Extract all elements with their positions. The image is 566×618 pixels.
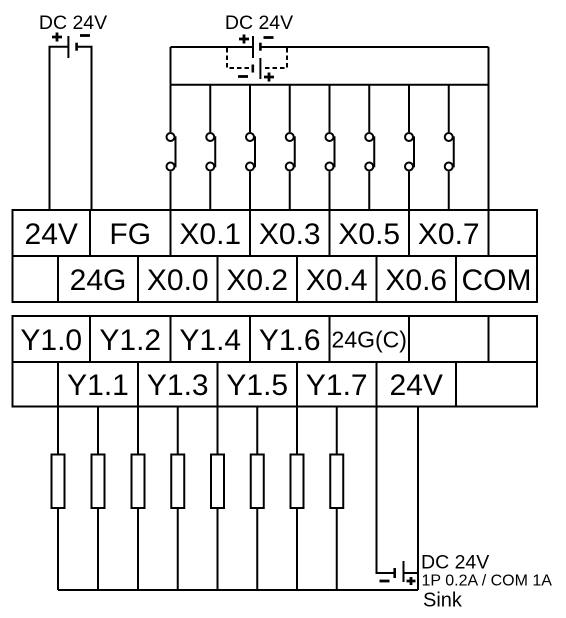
- switch S6 (input X0.5): [365, 85, 374, 210]
- wire B1 - to terminal 24G: [77, 47, 92, 210]
- battery B3 long plate (+): [403, 561, 405, 582]
- wire output Y1.6 to load L7: [296, 407, 298, 455]
- load L7: [291, 455, 304, 509]
- load L1: [52, 455, 65, 509]
- svg-text:Y1.5: Y1.5: [226, 369, 288, 402]
- svg-text:24G: 24G: [70, 264, 127, 297]
- wire output Y1.4 to load L5: [217, 407, 219, 455]
- battery B1 long plate (+): [67, 36, 69, 58]
- terminal Y1.2: [90, 316, 171, 362]
- svg-text:Y1.4: Y1.4: [179, 324, 241, 357]
- terminal X0.6: [377, 256, 457, 302]
- wire left riser: [170, 47, 172, 85]
- switch S4 (input X0.3): [286, 85, 295, 210]
- wire load L8 to common bus: [336, 508, 338, 590]
- wire load L1 to common bus: [57, 508, 59, 590]
- wire output Y1.2 to load L3: [137, 407, 139, 455]
- terminal 24V: [13, 210, 91, 256]
- svg-text:1P 0.2A / COM 1A: 1P 0.2A / COM 1A: [422, 573, 553, 590]
- svg-text:COM: COM: [462, 264, 532, 297]
- terminal Y1.6: [250, 316, 330, 362]
- polarity + (battery B1): [52, 33, 62, 42]
- wire load L7 to common bus: [296, 508, 298, 590]
- terminal X0.7: [409, 210, 489, 256]
- wire battery B3 + to terminal 24V and common bus: [404, 407, 419, 591]
- terminal 24G: [58, 256, 138, 302]
- wire top bus right segment: [260, 46, 488, 48]
- svg-text:Y1.7: Y1.7: [306, 369, 368, 402]
- switch S5 (input X0.4): [326, 85, 335, 210]
- svg-text:X0.5: X0.5: [338, 218, 400, 251]
- switch S1 (input X0.0): [167, 85, 176, 210]
- wire output Y1.3 to load L4: [177, 407, 179, 455]
- wire load L2 to common bus: [97, 508, 99, 590]
- svg-text:Y1.0: Y1.0: [20, 324, 82, 357]
- terminal X0.5: [330, 210, 410, 256]
- svg-text:Y1.2: Y1.2: [99, 324, 161, 357]
- terminal 24V (output row): [377, 362, 457, 407]
- terminal (blank, Y lower row): [13, 362, 59, 407]
- svg-text:Sink: Sink: [423, 590, 463, 612]
- wire dashed alternate left (B2'): [227, 48, 250, 68]
- wire output Y1.5 to load L6: [256, 407, 258, 455]
- svg-text:X0.0: X0.0: [147, 264, 209, 297]
- wire load L6 to common bus: [256, 508, 258, 590]
- terminal (blank, Y upper row): [409, 316, 489, 362]
- load L3: [132, 455, 145, 509]
- wire input bus: [171, 84, 489, 86]
- wire load L5 to common bus: [217, 508, 219, 590]
- terminal (blank, Y lower row): [456, 362, 537, 407]
- svg-text:X0.2: X0.2: [226, 264, 288, 297]
- terminal X0.1: [171, 210, 251, 256]
- svg-text:DC 24V: DC 24V: [39, 12, 107, 34]
- svg-text:X0.3: X0.3: [259, 218, 321, 251]
- wire B1 + to terminal 24V: [50, 47, 69, 210]
- svg-text:DC 24V: DC 24V: [421, 552, 489, 574]
- terminal Y1.4: [171, 316, 251, 362]
- polarity - (battery B3): [380, 580, 390, 583]
- load L6: [251, 455, 264, 509]
- wire output Y1.7 to load L8: [336, 407, 338, 455]
- wire right riser to terminal COM: [488, 47, 490, 210]
- switch S3 (input X0.2): [246, 85, 255, 210]
- battery B2' long plate (+): [259, 58, 261, 79]
- svg-text:24V: 24V: [390, 369, 443, 402]
- wire common bus: [58, 589, 418, 591]
- terminal X0.2: [218, 256, 298, 302]
- terminal Y1.5 (output row): [218, 362, 298, 407]
- terminal Y1.3 (output row): [138, 362, 218, 407]
- wire terminal 24G(C) to battery B3 -: [377, 407, 394, 574]
- terminal Y1.7 (output row): [297, 362, 377, 407]
- terminal (blank, X upper row): [489, 210, 538, 256]
- svg-text:X0.6: X0.6: [385, 264, 447, 297]
- battery B3 short plate (-): [393, 568, 396, 578]
- battery B2 short plate (-): [259, 43, 262, 51]
- terminal 24G(C): [330, 316, 410, 362]
- svg-text:24V: 24V: [25, 218, 78, 251]
- load L5: [211, 455, 224, 509]
- svg-text:Y1.6: Y1.6: [259, 324, 321, 357]
- wire dashed alternate right (B2'): [262, 48, 287, 68]
- svg-text:Y1.3: Y1.3: [147, 369, 209, 402]
- terminal (blank, X lower row): [13, 256, 59, 302]
- load L8: [330, 455, 343, 509]
- svg-text:DC 24V: DC 24V: [225, 12, 293, 34]
- wire output Y1.1 to load L2: [97, 407, 99, 455]
- terminal X0.0: [138, 256, 218, 302]
- terminal COM: [456, 256, 537, 302]
- switch S8 (input X0.7): [445, 85, 454, 210]
- wire top bus left segment: [171, 46, 254, 48]
- terminal Y1.0: [13, 316, 91, 362]
- polarity - (battery B1): [80, 34, 90, 37]
- polarity + (battery B2'): [264, 73, 274, 82]
- wire load L3 to common bus: [137, 508, 139, 590]
- svg-text:FG: FG: [109, 218, 151, 251]
- svg-text:X0.7: X0.7: [418, 218, 480, 251]
- wire output Y1.0 to load L1: [57, 407, 59, 455]
- svg-text:X0.1: X0.1: [179, 218, 241, 251]
- battery B2 long plate (+): [252, 36, 254, 58]
- battery B2' short plate (-): [252, 65, 255, 73]
- terminal X0.3: [250, 210, 330, 256]
- svg-text:Y1.1: Y1.1: [67, 369, 129, 402]
- battery B1 short plate (-): [75, 43, 78, 51]
- svg-text:X0.4: X0.4: [306, 264, 368, 297]
- terminal X0.4: [297, 256, 377, 302]
- switch S2 (input X0.1): [206, 85, 215, 210]
- polarity - (battery B2): [264, 36, 274, 39]
- wire load L4 to common bus: [177, 508, 179, 590]
- svg-text:24G(C): 24G(C): [332, 326, 407, 352]
- terminal Y1.1 (output row): [58, 362, 138, 407]
- polarity + (battery B2): [239, 35, 249, 44]
- switch S7 (input X0.6): [405, 85, 414, 210]
- terminal (blank, Y upper row): [489, 316, 538, 362]
- load L2: [92, 455, 105, 509]
- terminal FG: [90, 210, 171, 256]
- polarity - (battery B2'): [238, 75, 248, 78]
- load L4: [171, 455, 184, 509]
- polarity + (battery B3): [407, 577, 416, 585]
